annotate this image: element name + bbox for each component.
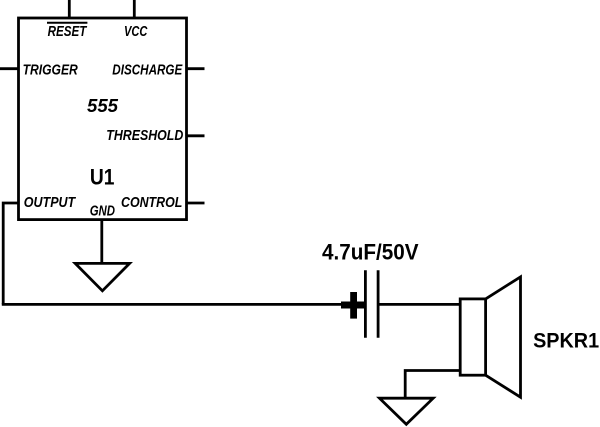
- svg-text:CONTROL: CONTROL: [121, 195, 182, 211]
- wire DISCHARGE pin stub: [187, 67, 205, 70]
- svg-text:OUTPUT: OUTPUT: [24, 195, 76, 211]
- ground symbol below U1: [75, 263, 129, 290]
- svg-text:U1: U1: [90, 164, 115, 189]
- capacitor plus polarity mark: [341, 292, 366, 319]
- wire main output net to capacitor: [2, 303, 364, 306]
- capacitor C1 right plate: [377, 270, 380, 338]
- overline RESET: [47, 22, 87, 24]
- svg-text:4.7uF/50V: 4.7uF/50V: [322, 240, 419, 265]
- wire GND pin stub: [100, 220, 103, 264]
- speaker SPKR1 cone: [486, 277, 521, 397]
- svg-text:555: 555: [87, 96, 119, 116]
- wire capacitor to speaker: [380, 303, 461, 306]
- speaker SPKR1 body: [460, 299, 485, 375]
- svg-text:DISCHARGE: DISCHARGE: [112, 63, 183, 79]
- svg-text:VCC: VCC: [124, 24, 148, 40]
- wire TRIGGER pin stub: [0, 67, 19, 70]
- wire CONTROL pin stub: [187, 202, 205, 205]
- capacitor C1 left plate: [364, 270, 367, 338]
- IC 555 timer U1 body: [19, 18, 187, 220]
- svg-text:THRESHOLD: THRESHOLD: [106, 128, 183, 144]
- wire OUTPUT to left and down: [3, 203, 18, 304]
- ground symbol below speaker: [380, 398, 434, 424]
- wire VCC pin stub: [133, 0, 136, 18]
- svg-text:TRIGGER: TRIGGER: [23, 63, 79, 79]
- wire THRESHOLD pin stub: [187, 134, 205, 137]
- wire speaker bottom to ground: [405, 371, 460, 399]
- svg-text:GND: GND: [90, 203, 116, 219]
- svg-text:SPKR1: SPKR1: [533, 328, 599, 353]
- svg-text:RESET: RESET: [48, 24, 88, 40]
- wire RESET pin stub: [68, 0, 71, 18]
